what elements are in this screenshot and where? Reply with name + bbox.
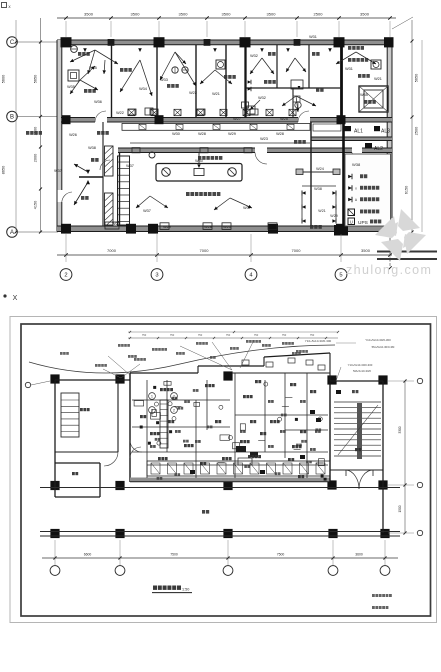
svg-text:C: C [10, 40, 15, 46]
corridor bench strip [122, 124, 310, 131]
lab side walls [119, 153, 121, 227]
svg-text:W31: W31 [309, 35, 317, 39]
sheet inner border [21, 324, 431, 616]
svg-text:7000: 7000 [292, 248, 302, 253]
sheet outer border [10, 317, 437, 623]
svg-text:8650: 8650 [2, 166, 6, 174]
svg-text:AL1: AL1 [354, 129, 363, 135]
specimen room [302, 171, 338, 173]
lab room name [186, 192, 190, 196]
svg-text:W37: W37 [143, 209, 151, 213]
svg-text:750: 750 [170, 333, 175, 337]
svg-text:3500: 3500 [360, 12, 370, 17]
svg-text:6600: 6600 [84, 553, 92, 557]
svg-text:4150: 4150 [34, 201, 38, 209]
entrance double door [346, 470, 359, 489]
svg-text:750: 750 [254, 333, 259, 337]
svg-text:W35: W35 [360, 93, 368, 97]
structural columns [61, 37, 72, 47]
svg-text:6150: 6150 [405, 186, 409, 194]
right dimension lines [411, 20, 413, 232]
right exterior wall [387, 40, 392, 232]
svg-text:5650: 5650 [415, 74, 419, 82]
svg-text:B: B [10, 114, 14, 120]
door swing arcs [95, 111, 106, 122]
right mid wall [311, 137, 392, 141]
reference bars [389, 233, 391, 268]
svg-text:U: U [350, 219, 353, 224]
svg-text:Y10+5x10-30/0-300: Y10+5x10-30/0-300 [305, 339, 332, 343]
svg-text:1: 1 [151, 394, 153, 398]
svg-text:3: 3 [151, 408, 153, 412]
svg-text:W22: W22 [189, 91, 197, 95]
changing room partitions [102, 122, 104, 226]
sheet2 columns [50, 374, 59, 383]
left exterior wall [57, 40, 62, 190]
sheet2 notes [372, 594, 375, 597]
svg-text:7500: 7500 [277, 553, 285, 557]
svg-text:750: 750 [282, 333, 287, 337]
svg-text:7000: 7000 [200, 248, 210, 253]
svg-text:5M+5x10-30/0-3M: 5M+5x10-30/0-3M [372, 345, 395, 349]
corner marks [2, 3, 7, 8]
svg-text:750: 750 [198, 333, 203, 337]
circuit arrows [70, 50, 95, 62]
svg-text:W32: W32 [258, 96, 266, 100]
svg-text:3500: 3500 [222, 12, 232, 17]
sheet2 annotations [118, 344, 121, 347]
svg-text:3500: 3500 [267, 12, 277, 17]
svg-text:W38: W38 [88, 146, 96, 150]
sheet2 walls [55, 379, 130, 381]
svg-text:W21: W21 [374, 77, 382, 81]
svg-text:W34: W34 [139, 87, 147, 91]
svg-text:A: A [10, 230, 14, 236]
svg-text:7000: 7000 [107, 248, 117, 253]
sheet2 room labels [80, 408, 83, 411]
top dimension line [57, 17, 396, 19]
svg-text:2000: 2000 [34, 154, 38, 162]
svg-text:2: 2 [173, 408, 175, 412]
svg-text:W37: W37 [126, 164, 134, 168]
svg-text:zhulong.com: zhulong.com [346, 263, 432, 277]
svg-text:W24: W24 [316, 167, 324, 171]
sheet2 right dims [404, 381, 406, 533]
svg-text:1:50: 1:50 [182, 588, 189, 592]
svg-text:3: 3 [155, 273, 158, 279]
svg-text:W23: W23 [260, 137, 268, 141]
stair flights hatched [105, 146, 114, 176]
bottom dimension and bubbles [57, 254, 392, 256]
svg-text:W26: W26 [69, 133, 77, 137]
room name labels [78, 52, 81, 56]
AL panels [344, 126, 351, 131]
svg-text:Y10+5x10-30/0-300: Y10+5x10-30/0-300 [348, 363, 373, 367]
svg-text:W31: W31 [345, 67, 353, 71]
svg-text:W21: W21 [212, 92, 220, 96]
bottom exterior wall [57, 226, 392, 232]
lab top wall [118, 148, 392, 153]
svg-text:X: X [13, 295, 18, 302]
svg-text:W27: W27 [233, 117, 241, 121]
svg-text:750: 750 [142, 333, 147, 337]
svg-text:2: 2 [64, 273, 67, 279]
svg-text:2: 2 [173, 394, 175, 398]
svg-text:W25: W25 [280, 117, 288, 121]
svg-text:W29: W29 [330, 214, 337, 218]
svg-text:Y10+5x10-30/0-300: Y10+5x10-30/0-300 [365, 338, 391, 342]
svg-text:3500: 3500 [179, 12, 189, 17]
sheet2 equipment [220, 435, 230, 440]
revision curve [29, 345, 335, 373]
legend box [345, 154, 391, 226]
svg-text:5M+5x10-30/0: 5M+5x10-30/0 [353, 369, 371, 373]
zhulong watermark [375, 209, 426, 261]
svg-text:W37: W37 [54, 169, 62, 173]
svg-text:5600: 5600 [2, 75, 6, 83]
svg-text:AL3: AL3 [381, 129, 390, 135]
svg-text:W20: W20 [223, 225, 231, 229]
svg-text:1500: 1500 [398, 505, 402, 512]
svg-text:W28: W28 [276, 132, 284, 136]
svg-text:W22: W22 [116, 111, 124, 115]
svg-text:2500: 2500 [415, 127, 419, 135]
svg-text:2500: 2500 [314, 12, 324, 17]
svg-text:7500: 7500 [170, 553, 178, 557]
central lab bench [156, 164, 242, 182]
svg-text:5650: 5650 [34, 75, 38, 83]
svg-text:W38: W38 [314, 187, 322, 191]
svg-text:5: 5 [339, 273, 342, 279]
svg-text:W36: W36 [94, 100, 102, 104]
grid bubbles C B A [17, 41, 58, 43]
svg-text:W30: W30 [172, 132, 180, 136]
colonnade lines [40, 487, 400, 489]
wall fixture boxes [160, 223, 169, 230]
svg-text:3500: 3500 [131, 12, 141, 17]
svg-text:W29: W29 [163, 225, 171, 229]
svg-text:W21: W21 [318, 209, 325, 213]
left dimension lines [15, 20, 17, 232]
svg-text:3500: 3500 [84, 12, 94, 17]
svg-text:x: x [355, 186, 357, 190]
sheet2 bench band [147, 461, 330, 476]
svg-text:3500: 3500 [361, 248, 371, 253]
svg-text:W32: W32 [250, 54, 258, 58]
sheet2 title [153, 586, 157, 590]
svg-text:3300: 3300 [398, 426, 402, 433]
sheet2 partitions [146, 380, 148, 478]
elevator shaft [359, 86, 388, 112]
sheet2 top dimension [128, 337, 338, 339]
svg-text:W29: W29 [228, 132, 236, 136]
svg-text:W28: W28 [204, 225, 212, 229]
svg-text:750: 750 [226, 333, 231, 337]
interior partitions upper rooms [111, 45, 113, 118]
top exterior wall [57, 40, 392, 45]
svg-text:750: 750 [310, 333, 315, 337]
staircase [334, 401, 381, 403]
fixtures [68, 70, 79, 81]
shelf ladder block [118, 156, 130, 225]
svg-text:UPS: UPS [358, 220, 368, 226]
svg-text:3600: 3600 [355, 553, 363, 557]
sheet2 left room furniture [61, 393, 79, 437]
sheet2 bottom dims [42, 557, 398, 559]
svg-text:AL2: AL2 [374, 146, 383, 152]
corridor wall row B [61, 118, 392, 123]
svg-text:W28: W28 [198, 132, 206, 136]
svg-text:W38: W38 [352, 162, 361, 167]
